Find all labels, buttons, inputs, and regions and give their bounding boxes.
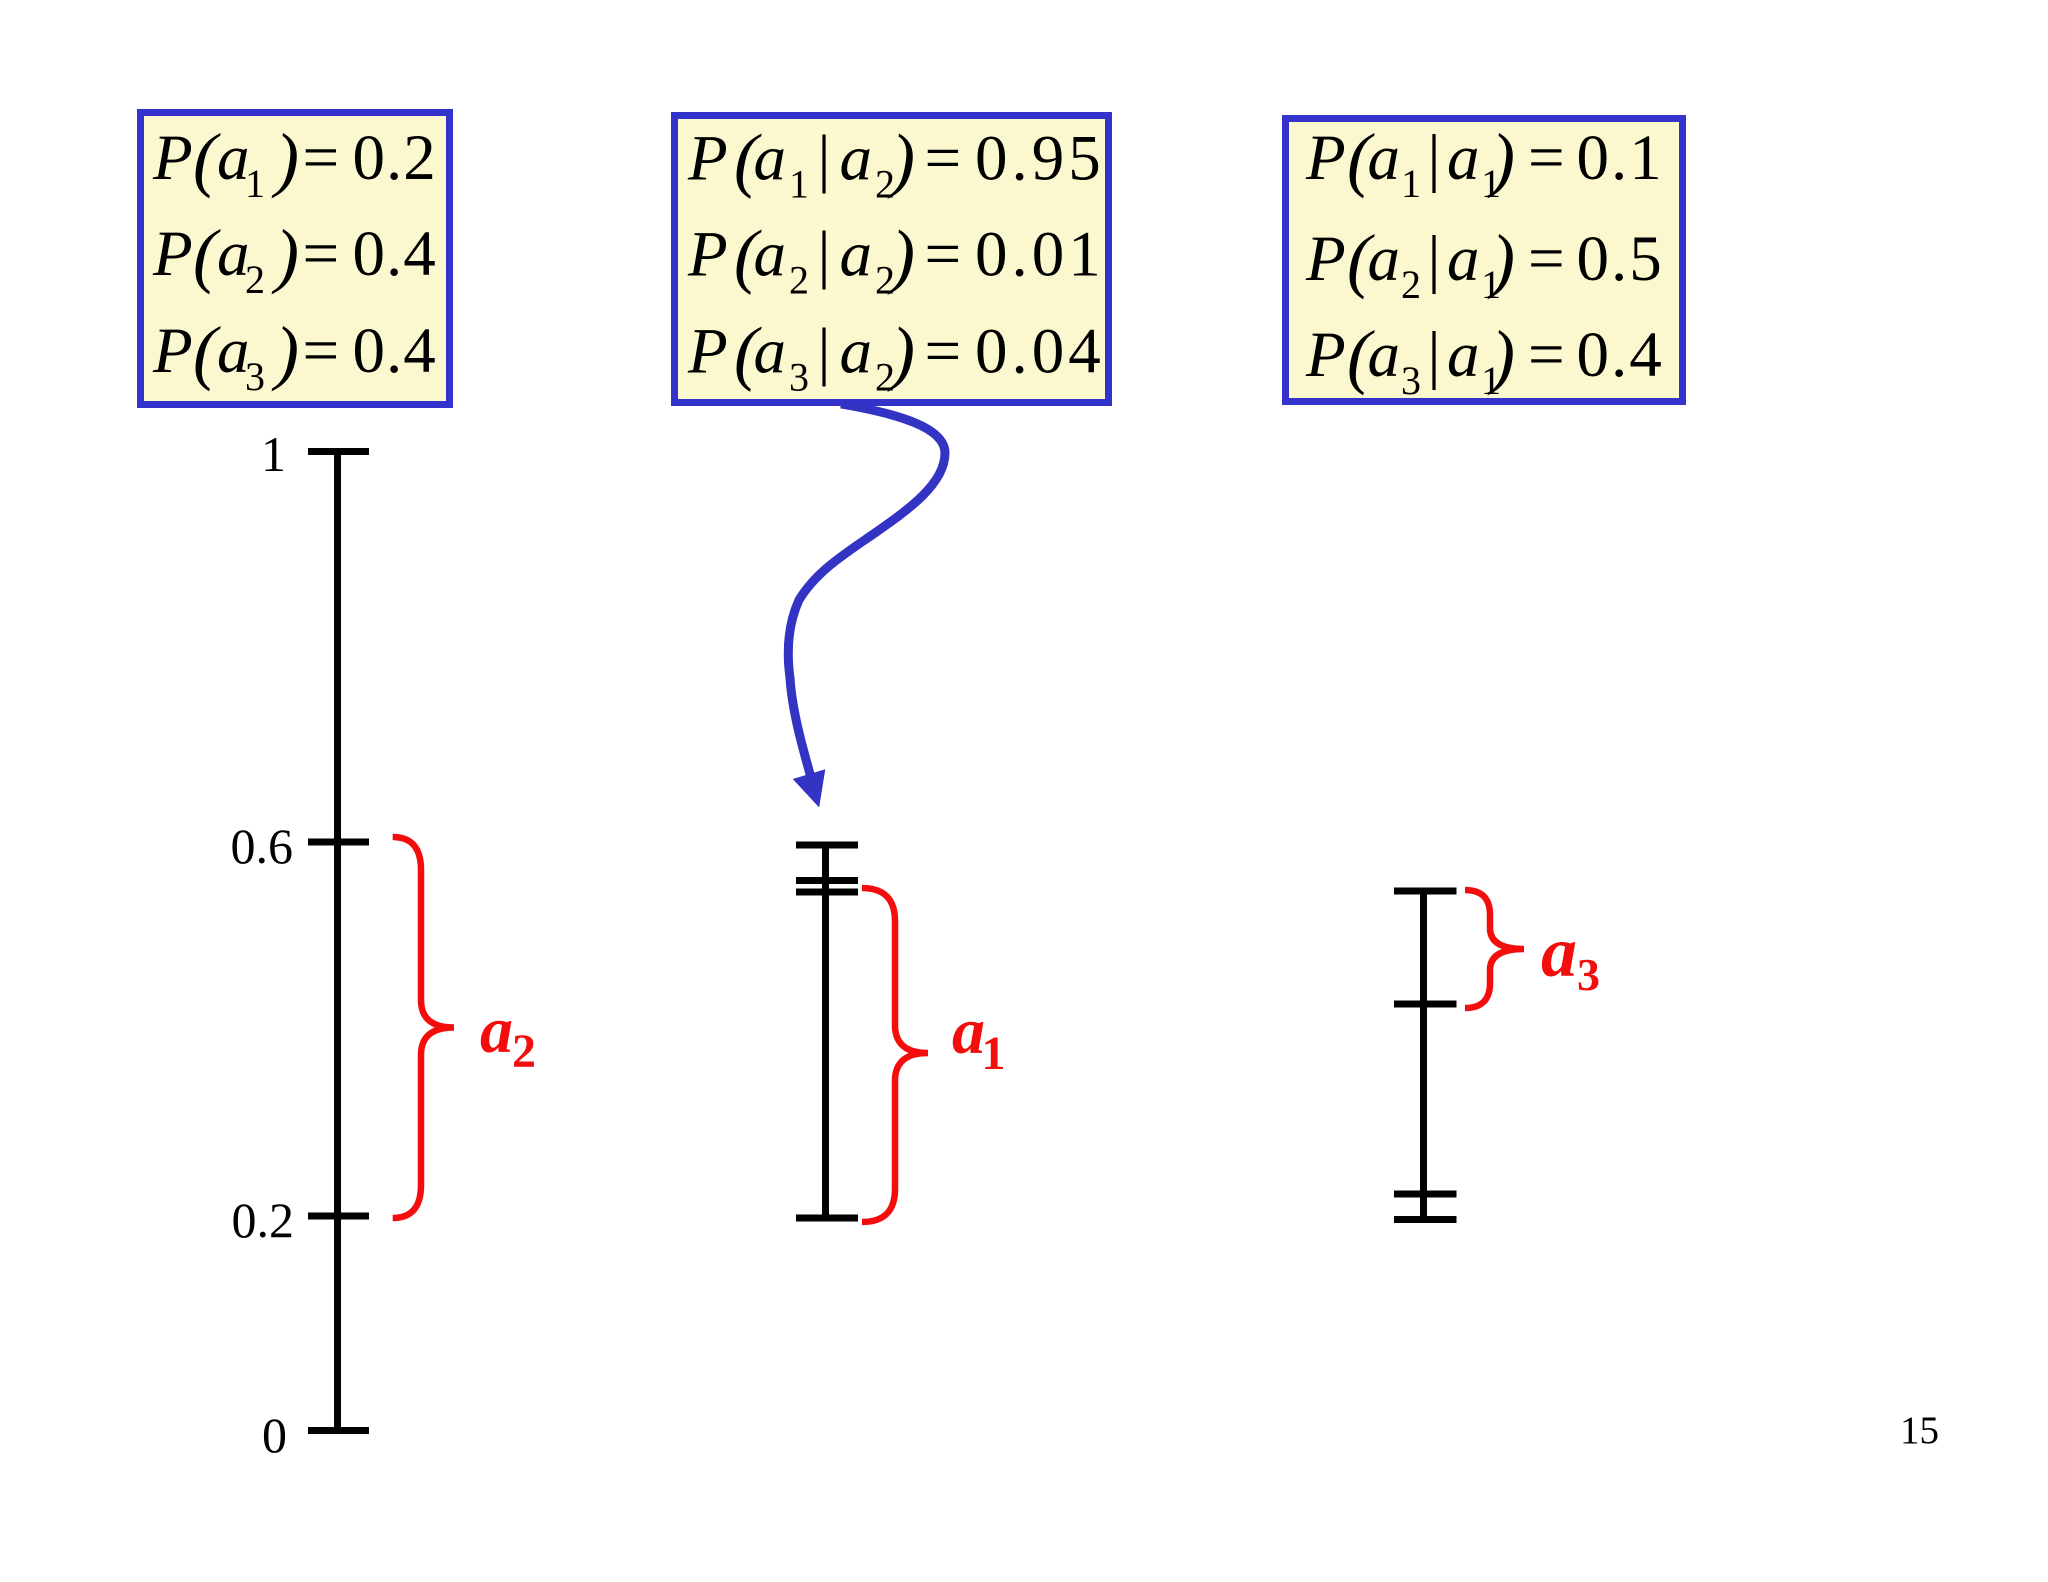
- middle segment top tick (0.6): [796, 842, 858, 849]
- right segment second tick: [1394, 1001, 1457, 1008]
- middle segment vertical line: [822, 845, 829, 1218]
- red brace for a2 on left axis: [393, 837, 454, 1218]
- middle segment subdivision tick upper: [796, 877, 858, 884]
- svg-text:0: 0: [262, 1407, 287, 1463]
- svg-text:0.6: 0.6: [231, 818, 294, 874]
- red brace for a3 on right segment: [1465, 890, 1524, 1008]
- middle segment subdivision tick lower: [796, 889, 858, 896]
- box 3: conditional probabilities given a1: [1286, 119, 1683, 402]
- middle segment bottom tick (0.2): [796, 1215, 858, 1222]
- left axis vertical line: [334, 451, 341, 1431]
- right segment top tick: [1394, 888, 1457, 895]
- svg-text:P(a3)=0.4: P(a3)=0.4: [152, 312, 437, 399]
- left axis tick 0.2: [308, 1213, 369, 1220]
- box 1: prior probabilities: [141, 113, 450, 405]
- svg-text:P(a3|a2)=0.04: P(a3|a2)=0.04: [687, 313, 1105, 400]
- left axis tick 1: [308, 448, 369, 455]
- right segment vertical line: [1420, 891, 1427, 1219]
- blue arrow from box 2 to middle segment: [788, 404, 945, 781]
- svg-text:1: 1: [261, 426, 286, 482]
- right segment bottom tick: [1394, 1216, 1457, 1223]
- left axis tick 0.6: [308, 839, 369, 846]
- svg-text:P(a1|a2)=0.95: P(a1|a2)=0.95: [687, 120, 1105, 207]
- svg-text:P(a1)=0.2: P(a1)=0.2: [152, 119, 437, 206]
- svg-text:P(a2|a2)=0.01: P(a2|a2)=0.01: [687, 216, 1105, 303]
- box 2: conditional probabilities given a2: [675, 116, 1109, 403]
- red brace for a1 on middle segment: [862, 888, 928, 1222]
- svg-text:0.2: 0.2: [232, 1192, 295, 1248]
- blue arrowhead: [797, 773, 822, 802]
- left axis tick 0: [308, 1427, 369, 1434]
- svg-text:P(a2)=0.4: P(a2)=0.4: [152, 215, 437, 302]
- svg-text:15: 15: [1900, 1409, 1939, 1452]
- right segment third tick: [1394, 1191, 1457, 1198]
